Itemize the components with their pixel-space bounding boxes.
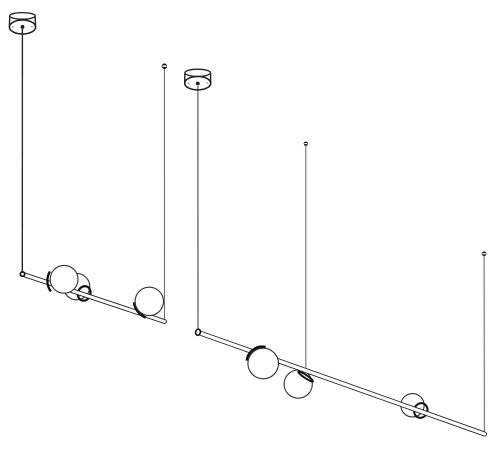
canopy F2 xyxy=(185,69,211,90)
canopy F2 center attachment xyxy=(196,82,200,86)
canopy F1 screw dots xyxy=(12,26,14,28)
sphere F2 right (behind rod) xyxy=(401,394,424,417)
knob F2 middle wire top xyxy=(304,142,308,146)
ring F2 first (behind sphere A) xyxy=(247,347,266,361)
rod F1 left end cap xyxy=(20,272,24,276)
sphere F1 big front xyxy=(50,265,78,293)
ring F1 left (behind sphere) xyxy=(47,271,50,291)
canopy F1 center attachment xyxy=(21,25,25,29)
rod F2 (white core) xyxy=(198,332,485,434)
sphere F1 right xyxy=(135,287,163,315)
wire F2 right xyxy=(483,255,485,432)
sphere F2 second (behind rod) xyxy=(284,370,312,398)
rod F1 (white core) xyxy=(23,274,165,321)
ring F2 second (leaf over rod) xyxy=(297,370,313,382)
wire F2 middle xyxy=(305,145,307,368)
ring F1 right (behind right sphere) xyxy=(134,302,146,317)
canopy F2 screw dots xyxy=(188,82,190,84)
wire F1 right xyxy=(163,68,165,320)
canopy F1 xyxy=(9,13,35,34)
knob F1 right wire top xyxy=(162,64,167,69)
ring F2 right (on rod) xyxy=(412,401,429,419)
wire F1 left (canopy suspension) xyxy=(21,28,23,272)
wire F2 left (canopy suspension) xyxy=(197,86,199,330)
ring F1 middle-rear (on rod) xyxy=(76,284,93,302)
sphere F2 first (front) xyxy=(248,348,279,379)
rod F2 left end cap xyxy=(195,329,201,336)
knob F2 right wire top xyxy=(482,252,486,256)
rod F2 (outer edge) xyxy=(198,332,485,434)
sphere F1 middle-rear xyxy=(63,273,89,299)
rod F1 (outer edge) xyxy=(23,274,165,321)
